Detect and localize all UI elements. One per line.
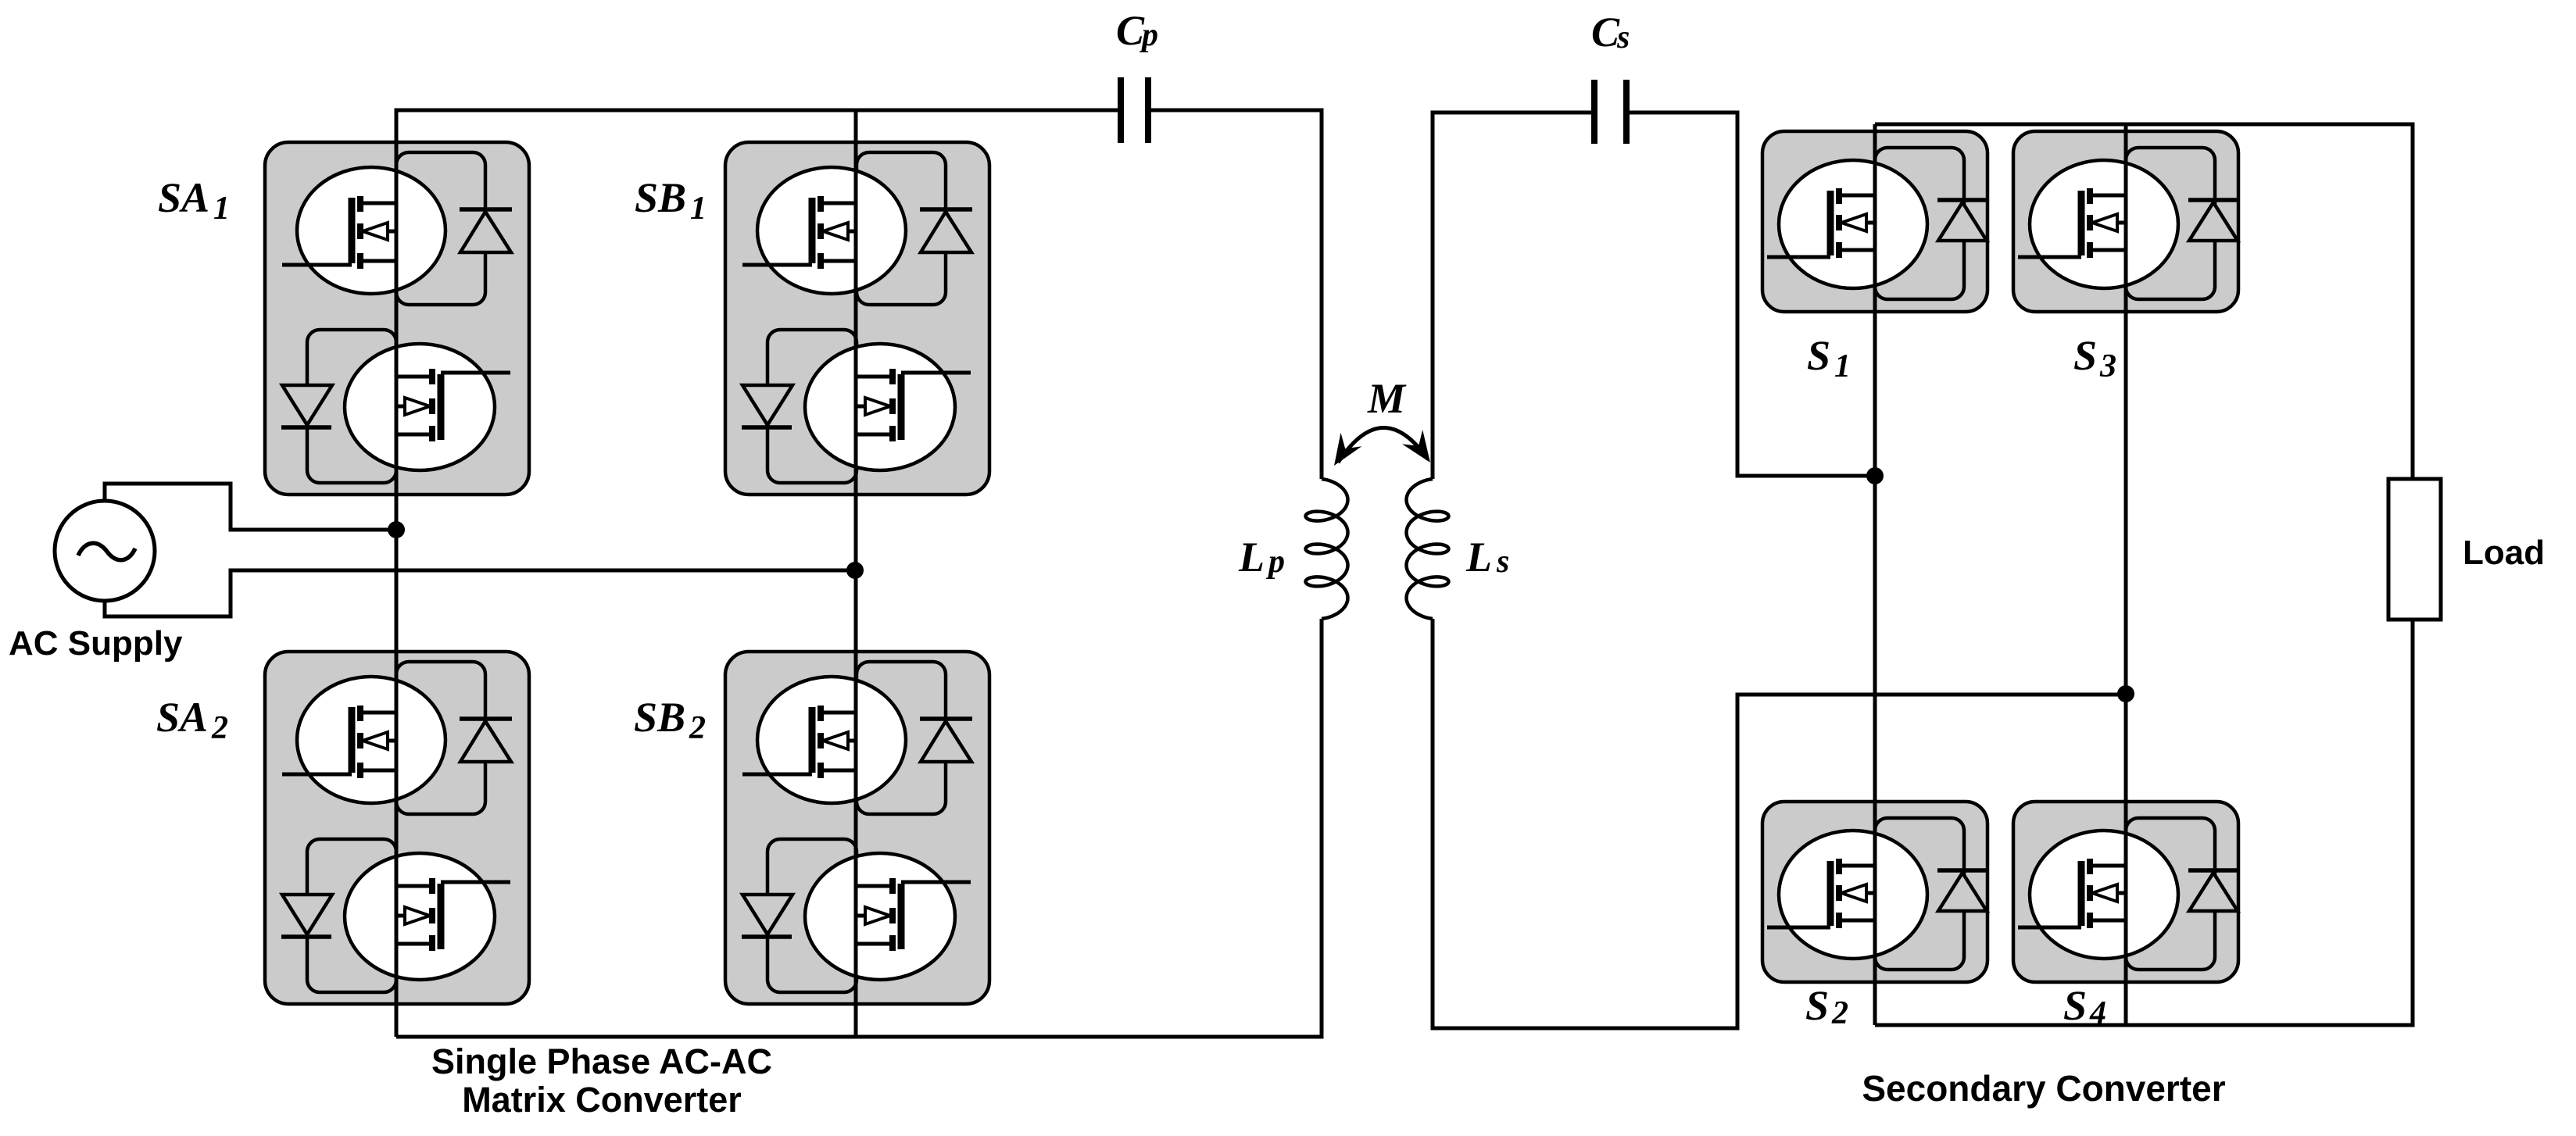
svg-text:C: C <box>1116 7 1145 54</box>
wire: Cp to Lp top <box>1148 110 1322 479</box>
svg-text:C: C <box>1591 9 1620 55</box>
svg-text:1: 1 <box>690 191 707 227</box>
switch S1 <box>1762 131 1987 312</box>
svg-text:M: M <box>1367 375 1407 422</box>
inductor Lp <box>1306 479 1348 619</box>
mutual coupling M arrow <box>1338 427 1428 463</box>
wire: S3-S4 leg column <box>2124 124 2128 1025</box>
switch S2 <box>1762 802 1987 982</box>
svg-text:SA: SA <box>156 694 208 741</box>
svg-text:4: 4 <box>2089 995 2106 1031</box>
svg-text:2: 2 <box>211 710 228 746</box>
svg-text:S: S <box>1805 982 1829 1029</box>
svg-text:S: S <box>1807 332 1830 379</box>
svg-text:L: L <box>1465 534 1492 581</box>
svg-text:2: 2 <box>689 710 706 746</box>
node B junction dot <box>846 562 864 579</box>
switch S3 <box>2013 131 2238 312</box>
node C junction dot <box>1866 467 1884 484</box>
wire: S1-S2 leg column <box>1873 124 1877 1025</box>
wire: S1-S2 column overdraw <box>1873 124 1877 1025</box>
wire: S3-S4 column overdraw <box>2124 124 2128 1025</box>
svg-text:s: s <box>1496 544 1509 580</box>
svg-text:1: 1 <box>1834 348 1851 384</box>
svg-text:3: 3 <box>2099 348 2116 384</box>
wire: Cs to node C <box>1626 113 1875 476</box>
switch SB1 <box>725 142 989 495</box>
svg-text:p: p <box>1140 17 1158 53</box>
wire: secondary top rail to load <box>1875 124 2413 479</box>
node A junction dot <box>388 521 405 538</box>
node D junction dot <box>2117 685 2134 702</box>
svg-text:S: S <box>2063 982 2087 1029</box>
inductor Ls <box>1407 479 1449 619</box>
svg-text:L: L <box>1238 534 1265 581</box>
svg-text:SA: SA <box>158 174 209 221</box>
svg-text:Single Phase AC-AC: Single Phase AC-AC <box>431 1041 772 1081</box>
svg-text:2: 2 <box>1831 995 1848 1031</box>
svg-text:Secondary Converter: Secondary Converter <box>1862 1068 2225 1109</box>
wire: SA leg column overdraw <box>395 110 399 1037</box>
wire: Ls bottom to node D <box>1433 619 2126 1028</box>
svg-text:SB: SB <box>634 694 685 741</box>
svg-text:AC Supply: AC Supply <box>9 624 183 663</box>
capacitor Cs <box>1591 80 1597 144</box>
svg-text:s: s <box>1616 20 1630 55</box>
wire: primary top rail and SA leg with bottom rail <box>396 110 1121 1037</box>
wire: Lp bottom to primary bottom rail <box>396 619 1322 1037</box>
AC source V1 <box>55 501 155 601</box>
load resistor <box>2388 479 2441 620</box>
wire: AC source bottom terminal to node B <box>105 570 855 616</box>
wire: SB leg column overdraw <box>854 110 858 1037</box>
svg-text:SB: SB <box>635 174 686 221</box>
wire: Ls top to Cs <box>1433 113 1594 479</box>
wire: AC source top terminal to node A <box>105 484 396 530</box>
svg-text:p: p <box>1266 544 1285 580</box>
switch S4 <box>2013 802 2238 982</box>
switch SA1 <box>265 142 529 495</box>
wire: secondary bottom rail to load <box>1875 620 2413 1025</box>
switch SA2 <box>265 652 529 1004</box>
svg-text:1: 1 <box>213 191 230 227</box>
svg-text:S: S <box>2073 332 2097 379</box>
switch SB2 <box>725 652 989 1004</box>
wire: SB leg column <box>854 110 858 1037</box>
svg-text:Load: Load <box>2463 534 2545 572</box>
capacitor Cp <box>1118 77 1124 143</box>
svg-text:Matrix Converter: Matrix Converter <box>462 1080 742 1120</box>
